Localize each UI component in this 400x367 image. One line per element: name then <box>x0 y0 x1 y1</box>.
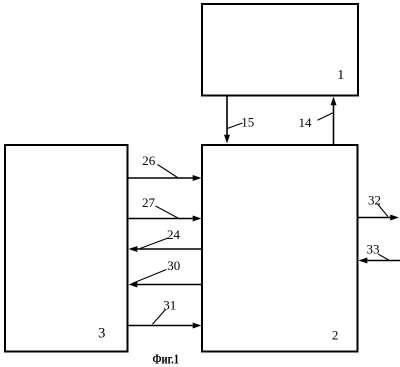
wire arrow 31 (block3 to block2, right) <box>128 323 202 329</box>
wire arrow 26 (block3 to block2, right) <box>128 175 202 181</box>
svg-text:3: 3 <box>98 326 105 342</box>
block 1 <box>202 4 358 96</box>
block 2 <box>202 145 358 352</box>
svg-text:30: 30 <box>167 258 180 273</box>
leader line 31 <box>153 310 166 325</box>
svg-text:33: 33 <box>367 242 380 257</box>
leader line 15 <box>227 123 242 129</box>
svg-text:15: 15 <box>241 115 254 130</box>
svg-text:2: 2 <box>332 328 339 343</box>
leader line 14 <box>318 113 333 120</box>
leader line 27 <box>156 206 179 218</box>
svg-text:1: 1 <box>337 68 344 83</box>
block 3 <box>5 145 128 352</box>
wire arrow 14 (block2 to block1, up) <box>331 97 337 145</box>
wire arrow 32 (block2 output, right) <box>358 215 400 221</box>
svg-text:Фиг.1: Фиг.1 <box>153 351 180 366</box>
svg-text:27: 27 <box>142 195 156 210</box>
wire arrow 27 (block3 to block2, right) <box>128 216 202 222</box>
svg-text:26: 26 <box>142 153 156 168</box>
leader line 32 <box>378 205 388 217</box>
wire arrow 24 (block2 to block3, left) <box>129 246 203 252</box>
svg-text:24: 24 <box>167 227 181 242</box>
wire arrow 30 (block2 to block3, left) <box>129 282 203 288</box>
leader line 26 <box>158 165 178 178</box>
wire arrow 33 (input to block2, left) <box>359 258 400 264</box>
wire arrow 15 (block1 to block2, down) <box>224 96 230 144</box>
svg-text:32: 32 <box>368 192 381 207</box>
leader line 30 <box>132 270 167 284</box>
svg-text:31: 31 <box>163 297 176 312</box>
svg-text:14: 14 <box>299 115 313 130</box>
leader line 24 <box>140 238 168 249</box>
leader line 33 <box>378 254 389 260</box>
